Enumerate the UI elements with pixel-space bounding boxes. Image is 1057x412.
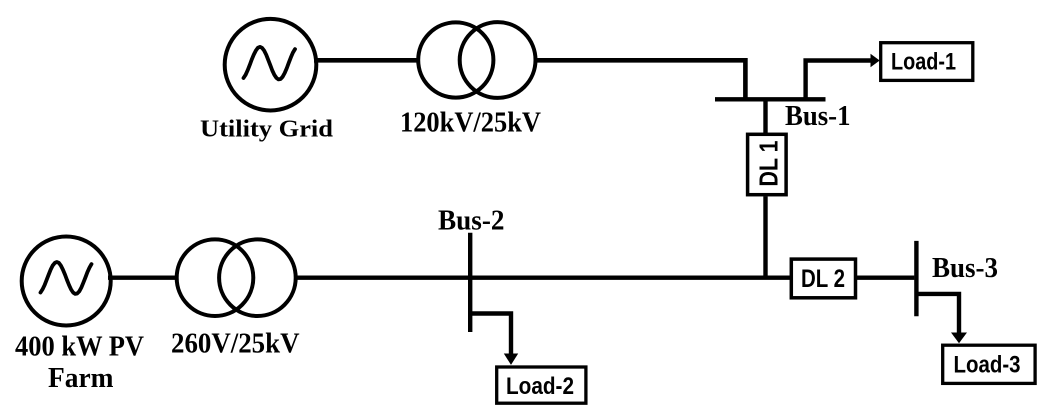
svg-text:260V/25kV: 260V/25kV <box>171 328 300 359</box>
wire: DL 1 to feeder junction <box>763 197 767 280</box>
svg-text:DL 1: DL 1 <box>756 141 784 187</box>
wire: Bus-3 to Load-3 with arrow <box>916 294 967 343</box>
wire: DL 2 to Bus-3 <box>857 276 914 280</box>
bus Bus-1 <box>715 97 826 101</box>
label 400 kW PV Farm <box>15 331 144 394</box>
svg-text:120kV/25kV: 120kV/25kV <box>400 108 541 139</box>
load box Load-1 <box>881 43 973 81</box>
AC source G1 (Utility Grid) <box>225 19 317 111</box>
svg-text:Farm: Farm <box>48 363 114 394</box>
bus Bus-2 <box>468 233 472 332</box>
AC source G2 (400 kW PV Farm) <box>22 237 111 326</box>
breaker DL 2 <box>791 259 855 298</box>
wire: G2 to T2 <box>108 276 178 280</box>
svg-text:Load-1: Load-1 <box>891 49 956 76</box>
feeder wire: T2 to DL 2 <box>296 276 791 280</box>
transformer T1 (120kV/25kV) <box>418 22 535 98</box>
wire: Bus-2 to Load-2 with arrow <box>470 314 518 365</box>
breaker DL 1 <box>748 134 787 194</box>
svg-text:Bus-1: Bus-1 <box>785 101 851 132</box>
wire: G1 to T1 <box>314 58 419 63</box>
wire: T1 to Bus-1 <box>536 60 745 101</box>
load box Load-3 <box>943 345 1035 383</box>
svg-text:Load-3: Load-3 <box>954 352 1021 379</box>
svg-text:Bus-2: Bus-2 <box>438 206 505 237</box>
svg-text:400 kW PV: 400 kW PV <box>15 331 144 362</box>
wire: Bus-1 to Load-1 with arrow <box>806 54 880 99</box>
wire: Bus-1 to DL 1 <box>763 99 767 133</box>
bus Bus-3 <box>914 241 918 316</box>
svg-text:DL 2: DL 2 <box>801 265 845 293</box>
transformer T2 (260V/25kV) <box>177 239 296 316</box>
svg-text:Load-2: Load-2 <box>506 373 574 400</box>
svg-text:Utility Grid: Utility Grid <box>200 116 334 142</box>
load box Load-2 <box>497 367 586 403</box>
svg-text:Bus-3: Bus-3 <box>932 253 998 284</box>
